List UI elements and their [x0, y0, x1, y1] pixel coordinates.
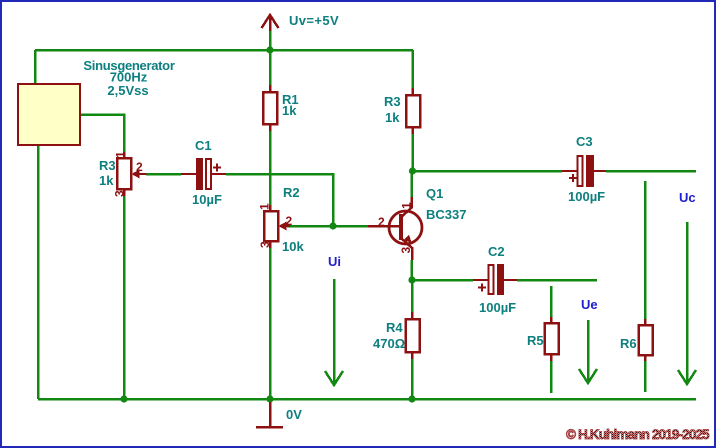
ground 0V symbol	[256, 402, 283, 427]
svg-text:R6: R6	[620, 336, 637, 351]
svg-text:100µF: 100µF	[479, 300, 516, 315]
svg-text:C3: C3	[576, 134, 593, 149]
resistor R3 (top right)	[406, 88, 420, 134]
node junction +5V/R1	[266, 46, 273, 53]
svg-text:1k: 1k	[99, 173, 114, 188]
svg-text:Ui: Ui	[328, 254, 341, 269]
svg-text:1: 1	[258, 203, 272, 210]
power +5V symbol	[262, 15, 279, 31]
capacitor C1	[181, 158, 226, 190]
node junction collector	[409, 167, 416, 174]
wire generator bottom to rail	[37, 145, 40, 399]
svg-text:Uv=+5V: Uv=+5V	[289, 13, 339, 28]
wiper arrow of R3 pot	[132, 170, 140, 179]
wire R4 top	[411, 280, 414, 312]
resistor R5	[545, 317, 559, 361]
transistor Q1 BC337	[368, 197, 422, 260]
svg-text:BC337: BC337	[426, 207, 466, 222]
wire C2 to right	[517, 279, 597, 282]
polarity + mark of C1	[213, 164, 221, 172]
wire +5V stem	[269, 30, 272, 50]
wire R6 top	[644, 181, 647, 319]
wire R5 bottom	[550, 361, 553, 393]
wire R5 top	[550, 286, 553, 317]
svg-text:R2: R2	[283, 185, 300, 200]
wire node to base	[333, 225, 368, 228]
wire R3 bottom to collector node	[411, 134, 414, 171]
polarity + mark of C2	[478, 284, 486, 292]
svg-text:R3: R3	[384, 94, 401, 109]
svg-text:R3: R3	[99, 158, 116, 173]
resistor R4	[406, 312, 420, 359]
resistor R1	[263, 85, 277, 131]
wire R4 bottom	[411, 359, 414, 399]
node junction rail R2	[266, 395, 273, 402]
capacitor C2	[473, 264, 517, 295]
svg-text:1: 1	[400, 202, 414, 209]
svg-text:3: 3	[258, 241, 272, 248]
wire top rail	[35, 49, 413, 52]
wire R3 pot bottom to rail	[123, 196, 126, 399]
svg-text:R5: R5	[527, 333, 544, 348]
svg-text:C1: C1	[195, 138, 212, 153]
wire R1 top	[269, 50, 272, 85]
wire R2 bottom to rail	[269, 248, 272, 399]
wire R6 bottom	[644, 361, 647, 392]
wire R2 wiper to node	[287, 225, 333, 228]
node junction base	[329, 222, 336, 229]
svg-text:1: 1	[114, 151, 128, 158]
svg-text:1k: 1k	[282, 103, 297, 118]
svg-text:R4: R4	[386, 320, 403, 335]
node junction rail R3pot	[120, 395, 127, 402]
wire emitter lead	[410, 260, 413, 280]
potentiometer R2	[258, 203, 293, 248]
svg-text:0V: 0V	[286, 407, 302, 422]
watermark copyright	[566, 427, 709, 442]
svg-text:10k: 10k	[282, 239, 304, 254]
arrow Ui	[325, 279, 343, 385]
wire C1 row left	[146, 173, 181, 176]
svg-text:C2: C2	[488, 244, 505, 259]
wire left vertical to generator	[34, 50, 37, 84]
svg-text:2: 2	[136, 160, 143, 174]
svg-text:1k: 1k	[385, 110, 400, 125]
svg-text:2: 2	[378, 215, 385, 229]
svg-text:Q1: Q1	[426, 186, 443, 201]
svg-text:Ue: Ue	[581, 297, 598, 312]
svg-text:470Ω: 470Ω	[373, 336, 405, 351]
arrow Uc	[678, 222, 696, 384]
svg-text:2,5Vss: 2,5Vss	[107, 83, 148, 98]
wire emitter row to C2	[412, 279, 473, 282]
wire collector top	[411, 50, 414, 88]
generator box	[18, 84, 80, 145]
arrow Ue	[579, 320, 597, 383]
wire bottom rail	[38, 398, 696, 401]
wire C1 row right to corner	[226, 174, 333, 226]
wire collector lead	[410, 171, 413, 197]
svg-text:100µF: 100µF	[568, 189, 605, 204]
resistor R6	[639, 319, 653, 361]
svg-text:2: 2	[286, 214, 293, 228]
wire generator output	[80, 115, 124, 153]
wire collector row to C3	[413, 170, 563, 173]
svg-text:Uc: Uc	[679, 190, 696, 205]
node junction emitter	[408, 276, 415, 283]
wiper arrow of R2 pot	[279, 222, 287, 231]
svg-text:3: 3	[399, 247, 413, 254]
capacitor C3	[562, 155, 606, 187]
wire R1 bottom to R2 top	[269, 131, 272, 205]
svg-text:10µF: 10µF	[192, 192, 222, 207]
wire C3 to right edge	[606, 170, 696, 173]
polarity + mark of C3	[569, 174, 577, 182]
svg-text:3: 3	[113, 190, 127, 197]
potentiometer R3 (left)	[113, 151, 147, 197]
node junction rail R4	[408, 395, 415, 402]
